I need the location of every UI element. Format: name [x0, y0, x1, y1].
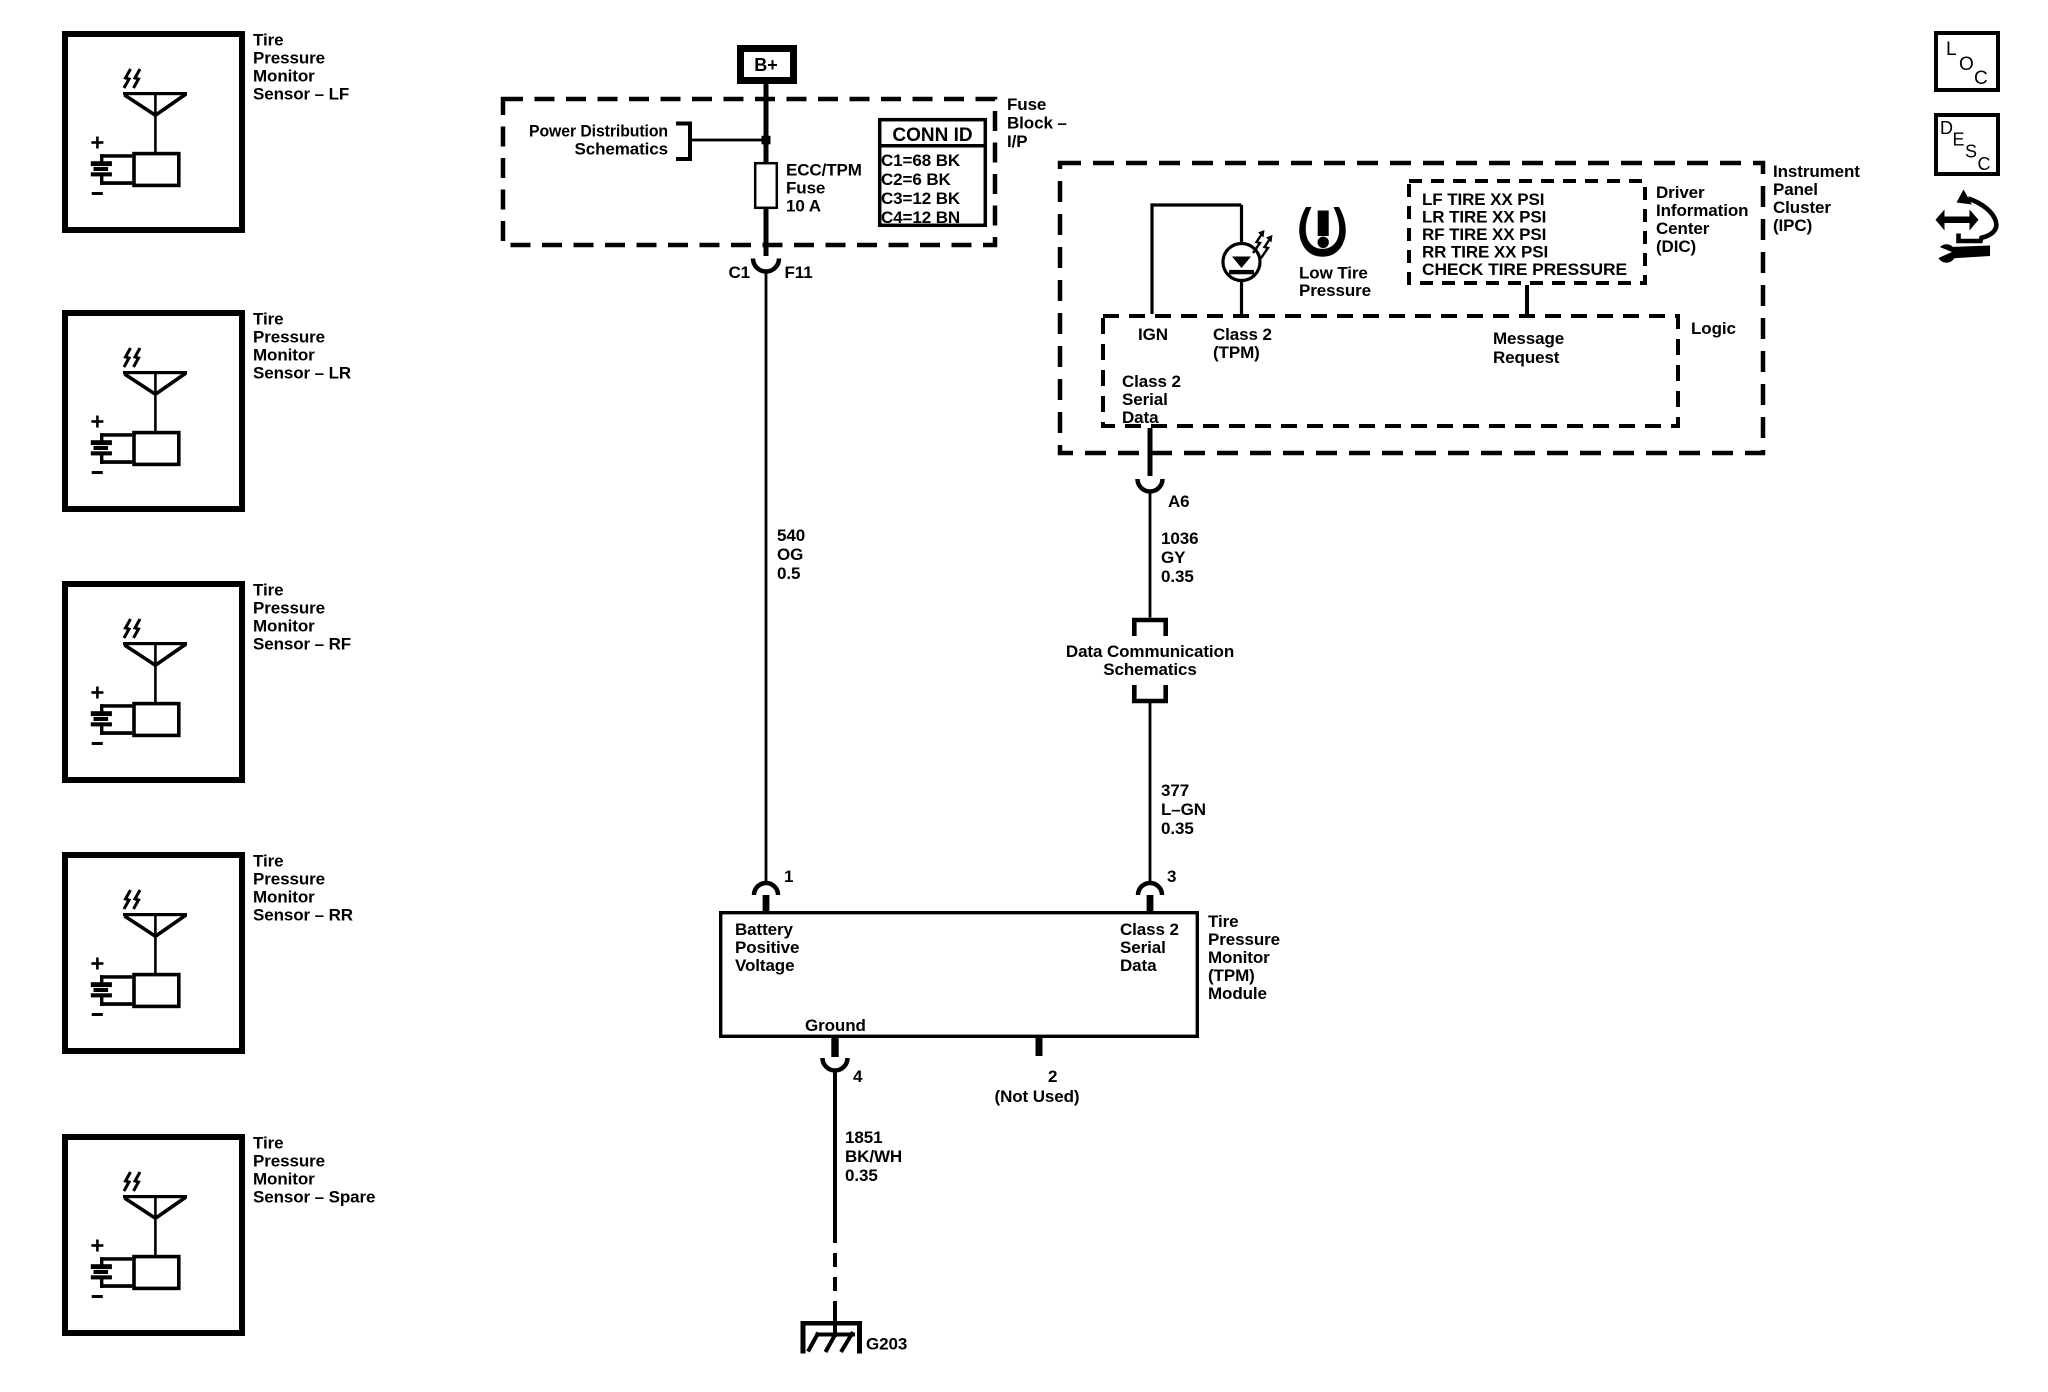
- svg-text:Tire: Tire: [1208, 912, 1238, 931]
- svg-text:C: C: [1978, 154, 1991, 174]
- svg-text:(TPM): (TPM): [1213, 343, 1260, 362]
- data communication reference brackets: [1066, 620, 1234, 701]
- svg-text:RF TIRE XX PSI: RF TIRE XX PSI: [1422, 225, 1546, 244]
- svg-text:LR TIRE XX PSI: LR TIRE XX PSI: [1422, 208, 1546, 227]
- svg-text:Block –: Block –: [1007, 114, 1067, 133]
- svg-text:Pressure: Pressure: [253, 1152, 325, 1171]
- svg-text:Schematics: Schematics: [1103, 660, 1197, 679]
- wire label 540 OG 0.5: [777, 526, 805, 583]
- wire label 1851 BK/WH 0.35: [845, 1128, 902, 1185]
- wire 377 L-GN 0.35: [1149, 703, 1152, 883]
- svg-text:Sensor – LR: Sensor – LR: [253, 364, 351, 383]
- svg-text:Fuse: Fuse: [786, 179, 825, 198]
- svg-text:Cluster: Cluster: [1773, 198, 1831, 217]
- svg-text:BK/WH: BK/WH: [845, 1147, 902, 1166]
- svg-text:C1=68 BK: C1=68 BK: [881, 151, 961, 170]
- svg-text:Serial: Serial: [1122, 390, 1168, 409]
- svg-text:CHECK TIRE PRESSURE: CHECK TIRE PRESSURE: [1422, 260, 1627, 279]
- TPM module box: [721, 913, 1198, 1037]
- svg-text:B+: B+: [754, 55, 778, 75]
- svg-text:F11: F11: [785, 263, 813, 282]
- logic dashed box: [1103, 316, 1678, 426]
- svg-text:Center: Center: [1656, 219, 1710, 238]
- svg-text:G203: G203: [866, 1335, 907, 1354]
- ground G203: [801, 1321, 908, 1354]
- label message request: [1493, 329, 1564, 367]
- svg-text:C: C: [1974, 68, 1988, 89]
- svg-text:Class 2: Class 2: [1122, 372, 1181, 391]
- svg-text:Data Communication: Data Communication: [1066, 642, 1234, 661]
- DIC message text: [1422, 190, 1627, 279]
- svg-text:GY: GY: [1161, 548, 1186, 567]
- svg-text:Pressure: Pressure: [1208, 930, 1280, 949]
- svg-text:Panel: Panel: [1773, 180, 1818, 199]
- svg-text:0.35: 0.35: [1161, 819, 1194, 838]
- wire 1036 GY 0.35: [1149, 492, 1152, 618]
- wire IGN branch: [1152, 205, 1242, 314]
- svg-text:Pressure: Pressure: [253, 49, 325, 68]
- svg-text:L: L: [1946, 39, 1957, 60]
- svg-text:Sensor – Spare: Sensor – Spare: [253, 1188, 375, 1207]
- pin 3 connector: [1138, 867, 1176, 911]
- pin 1 connector: [754, 867, 793, 911]
- svg-text:0.5: 0.5: [777, 564, 800, 583]
- svg-text:Pressure: Pressure: [253, 599, 325, 618]
- label Instrument Panel Cluster (IPC): [1773, 162, 1860, 235]
- svg-text:Monitor: Monitor: [1208, 948, 1270, 967]
- svg-text:Positive: Positive: [735, 938, 799, 957]
- fuse block dashed boundary: [503, 99, 995, 245]
- svg-text:Schematics: Schematics: [575, 140, 669, 159]
- svg-text:(DIC): (DIC): [1656, 237, 1696, 256]
- Power Distribution Schematics reference: [529, 122, 690, 160]
- svg-text:Sensor – RR: Sensor – RR: [253, 906, 353, 925]
- svg-text:C3=12 BK: C3=12 BK: [881, 189, 961, 208]
- svg-text:RR TIRE XX PSI: RR TIRE XX PSI: [1422, 243, 1548, 262]
- DIC dashed box: [1409, 181, 1645, 283]
- svg-text:2: 2: [1048, 1067, 1057, 1086]
- LOC icon: [1936, 33, 1998, 90]
- node Class 2 Serial Data: [1122, 372, 1181, 427]
- LED indicator: [1223, 230, 1273, 281]
- svg-text:IGN: IGN: [1138, 325, 1168, 344]
- svg-text:Tire: Tire: [253, 581, 283, 600]
- svg-text:Message: Message: [1493, 329, 1564, 348]
- node Class 2 (TPM): [1213, 325, 1272, 362]
- svg-text:Monitor: Monitor: [253, 1170, 315, 1189]
- svg-text:C1: C1: [728, 263, 750, 282]
- svg-text:4: 4: [853, 1067, 863, 1086]
- svg-text:Serial: Serial: [1120, 938, 1166, 957]
- svg-text:1036: 1036: [1161, 529, 1198, 548]
- wire to power distribution: [690, 139, 766, 142]
- svg-text:Sensor – RF: Sensor – RF: [253, 635, 351, 654]
- svg-text:Tire: Tire: [253, 1134, 283, 1153]
- svg-text:(TPM): (TPM): [1208, 966, 1255, 985]
- svg-text:Pressure: Pressure: [253, 328, 325, 347]
- svg-text:Sensor – LF: Sensor – LF: [253, 85, 349, 104]
- svg-text:C4=12 BN: C4=12 BN: [881, 208, 960, 227]
- svg-text:Low Tire: Low Tire: [1299, 264, 1368, 283]
- svg-text:377: 377: [1161, 781, 1189, 800]
- connector C1 / F11: [728, 259, 812, 283]
- wire label 377 L-GN 0.35: [1161, 781, 1206, 838]
- svg-text:Data: Data: [1120, 956, 1157, 975]
- Tire Pressure Monitor Sensor - RR: [65, 852, 353, 1052]
- svg-text:Instrument: Instrument: [1773, 162, 1860, 181]
- svg-text:D: D: [1940, 118, 1953, 138]
- svg-text:Monitor: Monitor: [253, 67, 315, 86]
- svg-text:Battery: Battery: [735, 920, 794, 939]
- DESC icon: [1936, 115, 1998, 174]
- svg-text:540: 540: [777, 526, 805, 545]
- fuse ECC/TPM 10 A: [755, 161, 862, 216]
- label TPM module: [1208, 912, 1280, 1003]
- wire logic exit to A6: [1148, 428, 1153, 476]
- svg-text:(IPC): (IPC): [1773, 216, 1812, 235]
- wire DIC to logic: [1525, 285, 1529, 314]
- wire 540 OG 0.5: [765, 272, 768, 884]
- svg-text:Request: Request: [1493, 348, 1560, 367]
- junction node: [762, 136, 771, 145]
- wire label 1036 GY 0.35: [1161, 529, 1198, 586]
- svg-text:I/P: I/P: [1007, 132, 1028, 151]
- svg-text:Monitor: Monitor: [253, 346, 315, 365]
- svg-text:1: 1: [784, 867, 793, 886]
- svg-text:Power Distribution: Power Distribution: [529, 122, 668, 141]
- pin 4 connector: [823, 1038, 864, 1086]
- svg-text:Tire: Tire: [253, 310, 283, 329]
- schematic jump icon (arrows and wrench): [1934, 190, 1997, 263]
- label Fuse Block - I/P: [1007, 95, 1067, 151]
- svg-text:0.35: 0.35: [845, 1166, 878, 1185]
- label DIC: [1656, 183, 1748, 256]
- wire 1851 BK/WH 0.35: [833, 1071, 837, 1230]
- svg-text:Voltage: Voltage: [735, 956, 794, 975]
- svg-text:0.35: 0.35: [1161, 567, 1194, 586]
- svg-text:Class 2: Class 2: [1120, 920, 1179, 939]
- svg-text:O: O: [1959, 54, 1974, 75]
- svg-text:Module: Module: [1208, 984, 1267, 1003]
- svg-text:Ground: Ground: [805, 1016, 866, 1035]
- svg-text:C2=6 BK: C2=6 BK: [881, 170, 952, 189]
- Tire Pressure Monitor Sensor - LF: [65, 31, 349, 231]
- svg-text:OG: OG: [777, 545, 803, 564]
- svg-text:Information: Information: [1656, 201, 1748, 220]
- svg-text:ECC/TPM: ECC/TPM: [786, 161, 862, 180]
- svg-text:Tire: Tire: [253, 852, 283, 871]
- wire B+ to fuse: [764, 84, 769, 162]
- low tire pressure telltale icon: [1299, 207, 1371, 300]
- svg-text:Pressure: Pressure: [253, 870, 325, 889]
- Tire Pressure Monitor Sensor - LR: [65, 310, 351, 510]
- svg-text:Class 2: Class 2: [1213, 325, 1272, 344]
- svg-text:CONN ID: CONN ID: [892, 125, 972, 146]
- svg-text:1851: 1851: [845, 1128, 882, 1147]
- svg-text:Data: Data: [1122, 408, 1159, 427]
- svg-text:Monitor: Monitor: [253, 888, 315, 907]
- svg-text:E: E: [1953, 130, 1965, 150]
- connector A6: [1138, 479, 1190, 511]
- pin name Class 2 Serial Data: [1120, 920, 1179, 975]
- svg-text:Tire: Tire: [253, 31, 283, 50]
- svg-text:Monitor: Monitor: [253, 617, 315, 636]
- svg-text:S: S: [1965, 142, 1977, 162]
- svg-text:3: 3: [1167, 867, 1176, 886]
- svg-text:Pressure: Pressure: [1299, 281, 1371, 300]
- svg-text:Logic: Logic: [1691, 319, 1736, 338]
- svg-text:L–GN: L–GN: [1161, 800, 1206, 819]
- svg-text:(Not Used): (Not Used): [995, 1087, 1080, 1106]
- wire fuse to connector C1: [764, 209, 769, 256]
- Tire Pressure Monitor Sensor - Spare: [65, 1134, 375, 1334]
- IPC dashed boundary: [1060, 163, 1763, 453]
- pin 2 stub (not used): [995, 1038, 1080, 1106]
- svg-text:Fuse: Fuse: [1007, 95, 1046, 114]
- pin name Battery Positive Voltage: [735, 920, 799, 975]
- svg-text:Driver: Driver: [1656, 183, 1705, 202]
- Tire Pressure Monitor Sensor - RF: [65, 581, 351, 781]
- dashed ground run: [833, 1229, 837, 1313]
- svg-text:LF TIRE XX PSI: LF TIRE XX PSI: [1422, 190, 1544, 209]
- svg-text:10 A: 10 A: [786, 197, 821, 216]
- svg-text:A6: A6: [1168, 492, 1190, 511]
- battery feed B+: [741, 49, 794, 81]
- wire LED branch: [1240, 205, 1243, 314]
- CONN ID table: [878, 120, 987, 227]
